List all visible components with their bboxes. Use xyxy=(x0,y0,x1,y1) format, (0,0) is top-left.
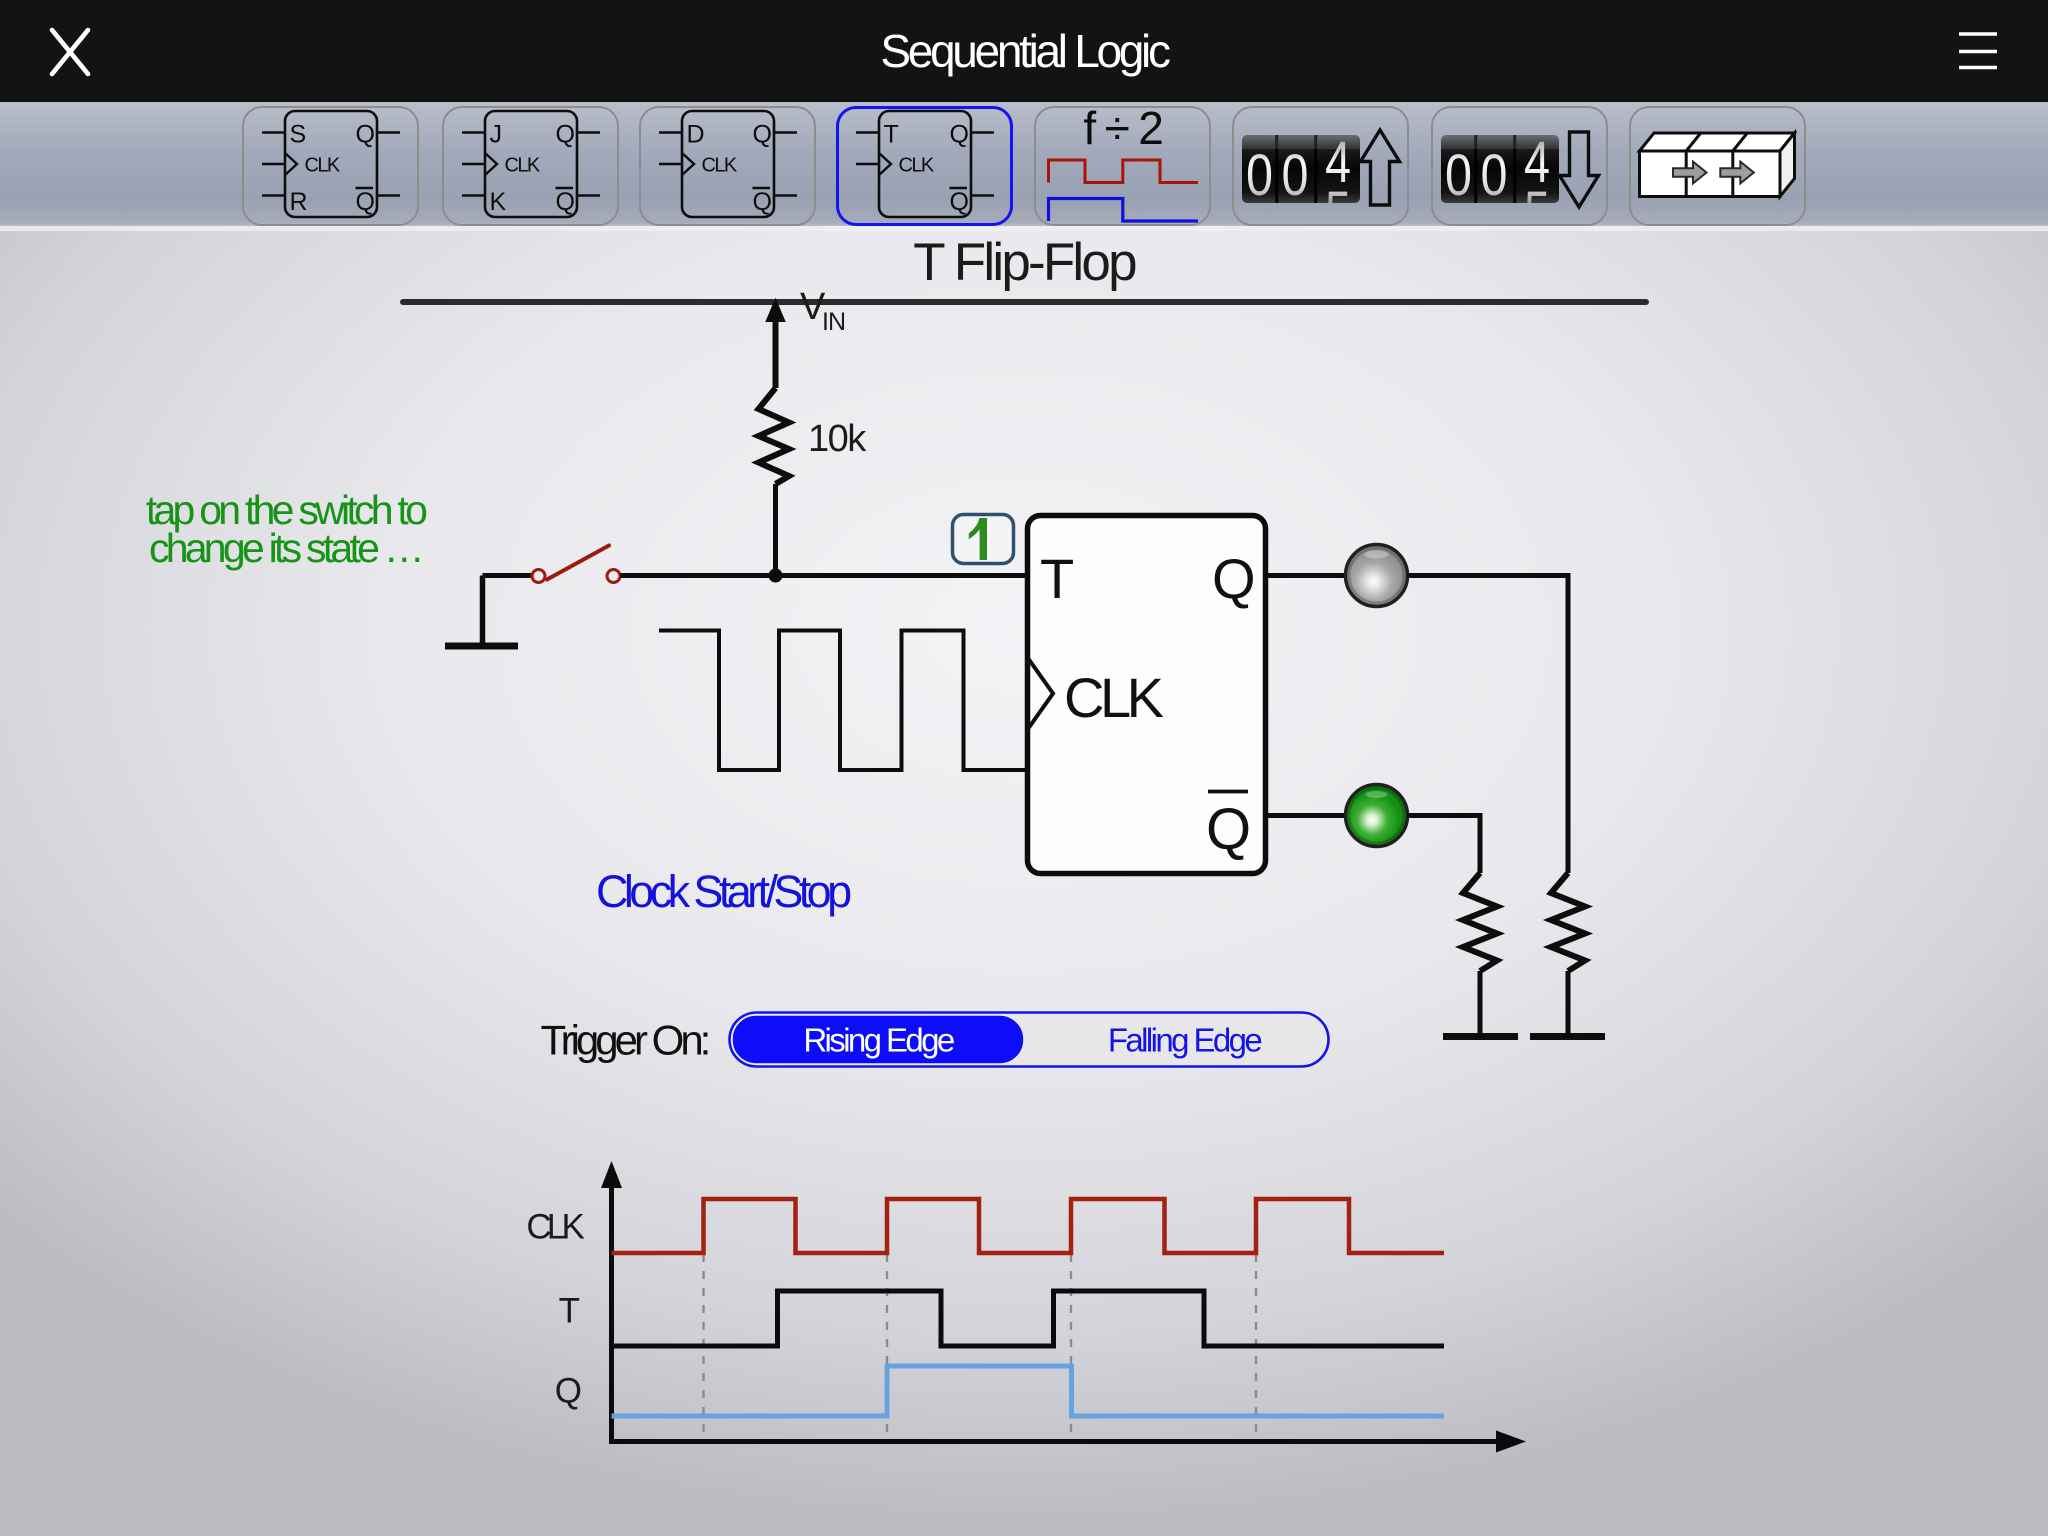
D flip-flop button xyxy=(639,106,816,226)
timing diagram X axis xyxy=(609,1431,1526,1453)
ground (left branch) xyxy=(1443,1033,1518,1040)
svg-text:Rising Edge: Rising Edge xyxy=(803,1022,954,1059)
T flip-flop U1 body xyxy=(1028,516,1266,874)
wire LED2 to corner xyxy=(1407,813,1480,818)
count down button xyxy=(1431,106,1608,226)
LED1 (gray, off) xyxy=(1346,545,1408,607)
VIN supply arrow xyxy=(766,299,785,388)
resistor R3 zigzag xyxy=(1463,873,1497,971)
wire Q-bar output to LED2 xyxy=(1265,813,1345,818)
clock signal square wave xyxy=(659,631,1029,771)
segmented control xyxy=(730,1013,1329,1067)
JK flip-flop button xyxy=(442,106,619,226)
wire down right branch xyxy=(1566,573,1571,873)
T waveform trace xyxy=(612,1291,1445,1346)
svg-text:change its state …: change its state … xyxy=(149,525,421,571)
timing diagram Y axis xyxy=(601,1161,622,1442)
T flip-flop button (selected) xyxy=(836,106,1013,226)
svg-text:T Flip-Flop: T Flip-Flop xyxy=(913,233,1136,292)
wire resistor to node xyxy=(773,484,778,576)
wire ground to switch contact xyxy=(483,573,532,578)
svg-text:IN: IN xyxy=(822,308,845,336)
svg-text:Trigger On:: Trigger On: xyxy=(541,1017,708,1064)
switch S1 (open, red) xyxy=(532,546,620,583)
LED2 (green, on) xyxy=(1346,785,1408,847)
VIN label xyxy=(800,286,845,336)
resistor R2 zigzag xyxy=(1551,873,1585,971)
ground (right branch) xyxy=(1530,1033,1605,1040)
wire Q output to LED1 xyxy=(1265,573,1345,578)
U1 CLK edge triangle xyxy=(1028,658,1054,730)
divide by two button xyxy=(1034,106,1211,226)
title underline rule xyxy=(403,299,1646,305)
ground (switch side) xyxy=(445,576,518,647)
SR flip-flop button xyxy=(242,106,419,226)
svg-text:Falling Edge: Falling Edge xyxy=(1108,1022,1261,1059)
rising edge dashed markers xyxy=(704,1254,1257,1441)
count up button xyxy=(1232,106,1409,226)
menu button xyxy=(1940,0,2020,102)
svg-text:Q: Q xyxy=(555,1372,582,1411)
shift register button xyxy=(1629,106,1806,226)
wire switch to T input xyxy=(621,573,1030,578)
hint text green xyxy=(146,487,427,571)
svg-text:10k: 10k xyxy=(808,418,867,460)
svg-text:CLK: CLK xyxy=(526,1208,584,1247)
svg-text:T: T xyxy=(559,1292,580,1331)
svg-text:T: T xyxy=(1040,547,1074,610)
svg-text:Q: Q xyxy=(1206,797,1251,862)
svg-text:Q: Q xyxy=(1212,547,1256,610)
wire down left branch xyxy=(1478,813,1483,873)
junction node dot xyxy=(769,569,783,583)
svg-text:Clock Start/Stop: Clock Start/Stop xyxy=(596,866,851,917)
Q waveform trace xyxy=(612,1366,1445,1416)
wire R2 to ground xyxy=(1566,971,1571,1036)
U1 pin label Q-bar xyxy=(1206,792,1251,863)
CLK waveform trace xyxy=(612,1199,1445,1253)
wire R3 to ground xyxy=(1478,971,1483,1036)
wire LED1 to corner xyxy=(1407,573,1568,578)
close button X xyxy=(0,0,120,102)
state badge 1 xyxy=(953,515,1014,564)
resistor R1 zigzag xyxy=(759,388,790,484)
svg-text:CLK: CLK xyxy=(1064,666,1164,729)
